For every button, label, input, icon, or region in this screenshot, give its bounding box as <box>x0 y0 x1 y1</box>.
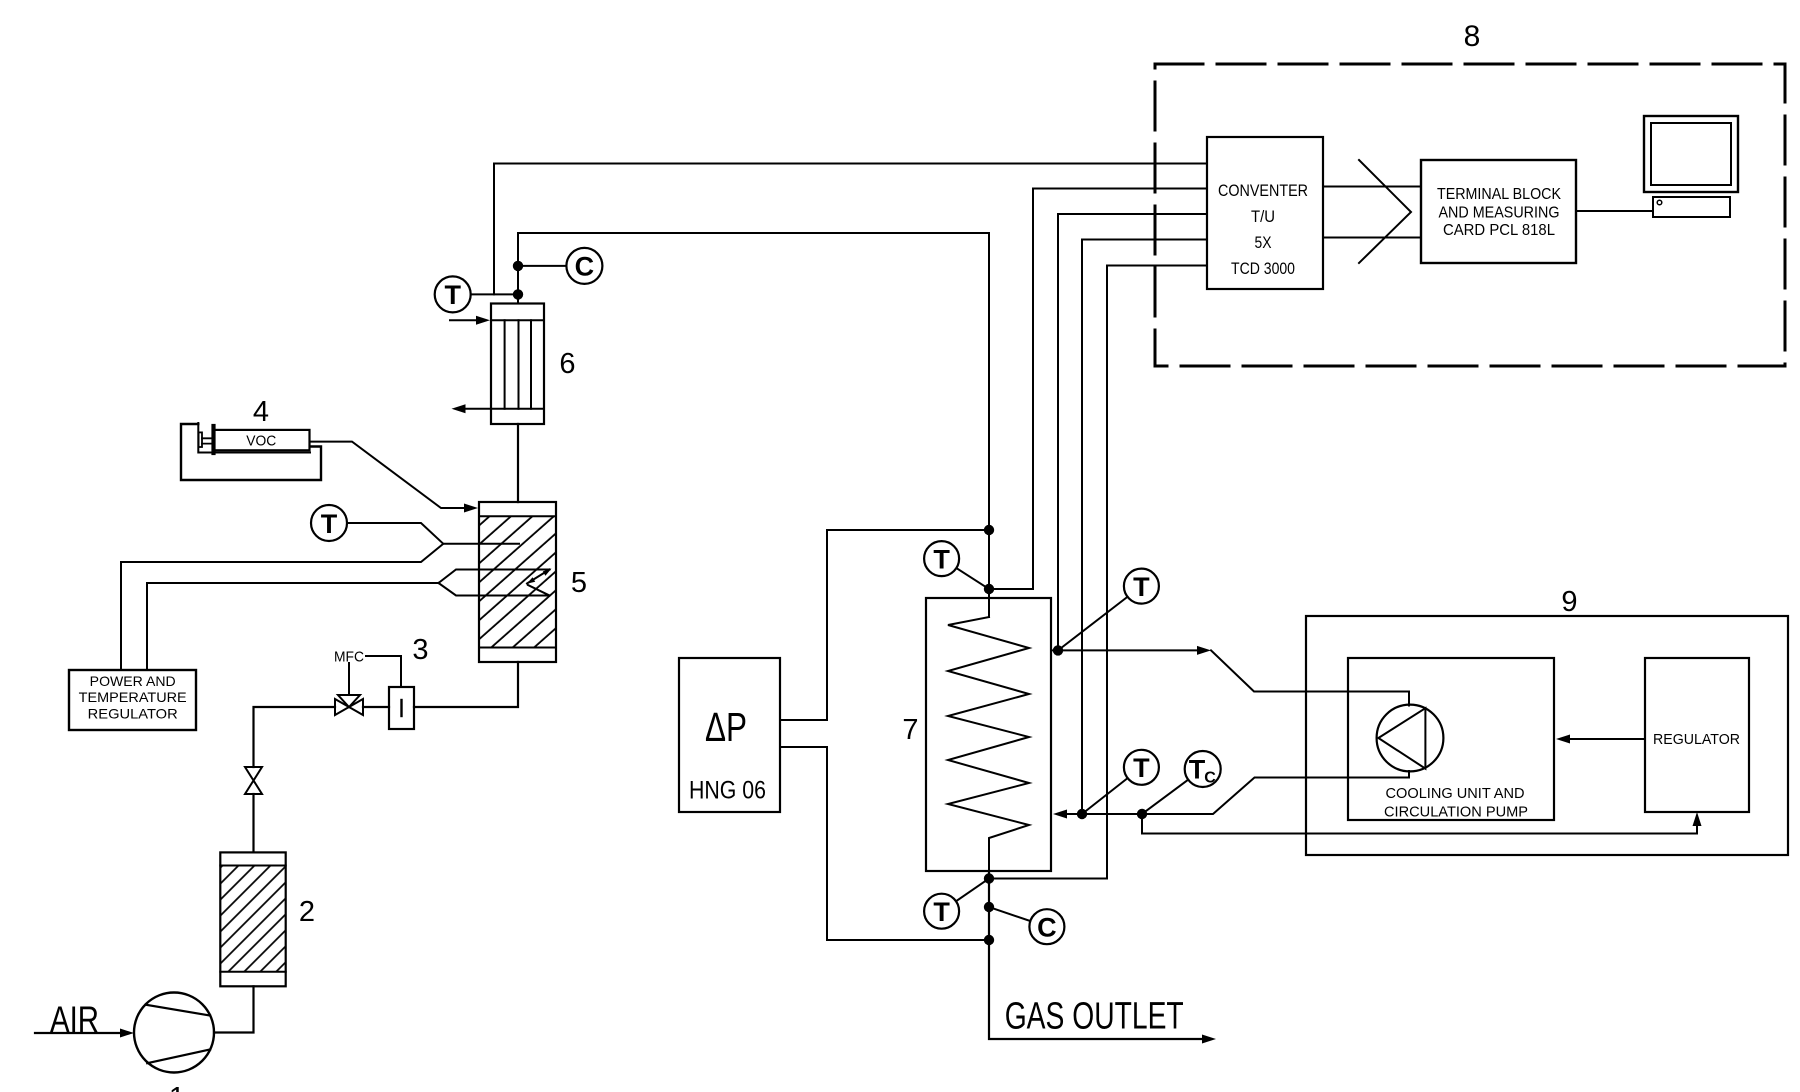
svg-text:REGULATOR: REGULATOR <box>88 705 178 721</box>
svg-text:TEMPERATURE: TEMPERATURE <box>79 689 187 705</box>
column 5 (evaporator) <box>480 517 555 647</box>
junction dot Tc <box>1137 809 1147 819</box>
T sensor coolant return <box>1124 750 1159 785</box>
svg-text:8: 8 <box>1464 20 1481 53</box>
MFC stem wire <box>348 663 350 695</box>
svg-text:2: 2 <box>299 896 315 928</box>
junction dot coolant return T <box>1077 809 1087 819</box>
svg-text:T: T <box>321 509 338 539</box>
wire terminal block to computer <box>1576 210 1653 212</box>
AIR inlet arrowhead <box>120 1029 134 1038</box>
svg-text:C: C <box>1037 913 1057 943</box>
AIR inlet wire <box>35 1032 122 1034</box>
syringe plunger <box>211 426 215 453</box>
svg-text:TERMINAL BLOCK: TERMINAL BLOCK <box>1437 186 1562 203</box>
svg-text:TCD 3000: TCD 3000 <box>1231 259 1295 278</box>
wire pump to column 2 <box>214 986 254 1032</box>
junction dot T <box>513 289 523 299</box>
wire regulator to cooling unit <box>1569 738 1645 740</box>
enclosure 9 <box>1306 616 1788 855</box>
T sensor column 7 bottom <box>924 894 959 929</box>
computer monitor <box>1644 116 1738 192</box>
converter box <box>1207 137 1323 289</box>
svg-text:7: 7 <box>902 714 918 746</box>
circulation pump <box>1377 705 1444 772</box>
wire indicator to column 5 <box>414 662 518 707</box>
svg-text:CIRCULATION PUMP: CIRCULATION PUMP <box>1384 804 1528 821</box>
svg-text:T: T <box>933 544 950 574</box>
svg-text:T: T <box>1133 572 1150 602</box>
wire valve to indicator <box>363 706 389 708</box>
dP impulse line bottom <box>780 747 989 940</box>
T sensor coolant supply <box>1124 569 1159 604</box>
wire syringe to column 5 <box>310 442 465 508</box>
wire column 5 to condenser 6 <box>517 424 519 502</box>
coolant return line <box>1053 810 1067 819</box>
signal wire column 7 feed to converter <box>989 189 1207 590</box>
T sensor condenser <box>435 276 471 312</box>
signal wire coolant return T to converter <box>1082 240 1207 815</box>
T sensor column 7 top <box>924 541 959 576</box>
signal wire column 7 bottom to converter <box>989 266 1207 879</box>
thermocouple probe line into column 5 <box>443 543 519 545</box>
svg-text:C: C <box>575 252 595 282</box>
C sampling point condenser <box>566 248 602 284</box>
dP transmitter box <box>679 658 780 812</box>
condenser 6 <box>491 304 544 425</box>
svg-text:T: T <box>933 897 950 927</box>
junction dot dP bottom tap <box>984 935 994 945</box>
T sensor wire <box>471 293 518 295</box>
signal wire coolant supply T to converter <box>1058 214 1207 650</box>
arrowhead into column 5 <box>464 504 478 513</box>
svg-text:5X: 5X <box>1255 233 1272 252</box>
svg-text:T: T <box>1133 753 1150 783</box>
coolant supply line <box>1051 649 1198 651</box>
terminal block box <box>1421 160 1576 263</box>
svg-text:T/U: T/U <box>1251 207 1275 226</box>
C sampling point bottom <box>1029 909 1064 944</box>
wire column 2 to valve <box>252 794 254 852</box>
junction dot dP tap <box>984 525 994 535</box>
svg-text:HNG 06: HNG 06 <box>689 777 766 805</box>
coil in column 7 <box>948 617 1029 871</box>
T sensor wire <box>347 523 443 544</box>
computer base <box>1653 197 1730 217</box>
junction dot column 7 feed <box>984 584 994 594</box>
svg-text:5: 5 <box>571 567 587 599</box>
condenser coolant inlet arrow <box>450 319 477 321</box>
svg-text:T: T <box>444 280 461 310</box>
syringe pump 4 base tray <box>181 424 321 480</box>
C sampling wire <box>518 265 566 267</box>
valve <box>245 767 262 794</box>
svg-text:CARD PCL 818L: CARD PCL 818L <box>1443 222 1555 239</box>
svg-text:4: 4 <box>253 396 269 428</box>
syringe pusher rod <box>199 432 202 447</box>
wire power box to thermocouple funnel <box>121 544 443 670</box>
wire valve to MFC valve <box>254 707 336 767</box>
syringe barrel <box>214 430 309 450</box>
pump 1 (air blower) <box>134 993 214 1073</box>
svg-text:9: 9 <box>1561 586 1577 618</box>
T sensor column 5 <box>311 505 347 541</box>
svg-text:AND MEASURING: AND MEASURING <box>1439 205 1560 222</box>
svg-text:POWER AND: POWER AND <box>90 673 176 689</box>
regulator box <box>1645 658 1749 812</box>
cable break symbol <box>1359 160 1411 263</box>
signal wire condenser T to converter <box>494 164 1207 295</box>
dashed enclosure 8 <box>1155 64 1785 366</box>
svg-text:ΔP: ΔP <box>705 704 747 750</box>
condenser coolant outlet arrow <box>465 408 491 410</box>
cable converter to terminal block <box>1323 187 1421 238</box>
junction dot C <box>513 261 523 271</box>
wire MFC to flow indicator <box>366 656 401 687</box>
svg-text:MFC: MFC <box>334 649 364 666</box>
svg-text:VOC: VOC <box>246 433 276 450</box>
3-way valve 3 (MFC controlled) <box>335 695 363 715</box>
gas outlet arrowhead <box>1202 1035 1216 1044</box>
svg-text:COOLING UNIT AND: COOLING UNIT AND <box>1386 785 1525 802</box>
sampling wire condenser to column 7 <box>518 233 989 617</box>
svg-text:GAS OUTLET: GAS OUTLET <box>1005 996 1184 1038</box>
svg-text:1: 1 <box>169 1082 185 1092</box>
flow indicator I <box>389 687 414 729</box>
column 2 (adsorber) <box>221 866 285 971</box>
svg-text:T: T <box>1189 755 1206 785</box>
svg-text:3: 3 <box>412 634 428 666</box>
heater element in column 5 <box>439 570 550 596</box>
signal wire dP impulse top <box>780 530 989 720</box>
junction dot coolant supply <box>1053 645 1063 655</box>
power and temperature regulator box <box>69 670 196 730</box>
wire power box to heater <box>147 583 439 670</box>
svg-text:C: C <box>1204 770 1216 787</box>
cooling unit box <box>1348 658 1554 820</box>
column 7 (heat exchanger) <box>926 598 1051 871</box>
junction dot C bottom <box>984 902 994 912</box>
svg-text:REGULATOR: REGULATOR <box>1653 731 1740 748</box>
svg-text:CONVENTER: CONVENTER <box>1218 181 1308 200</box>
wire column 7 bottom <box>989 871 1202 1039</box>
junction dot column 7 outlet <box>984 873 994 883</box>
feedback wire Tc to regulator <box>1142 814 1697 834</box>
svg-text:6: 6 <box>559 348 575 380</box>
Tc sensor <box>1185 751 1221 787</box>
